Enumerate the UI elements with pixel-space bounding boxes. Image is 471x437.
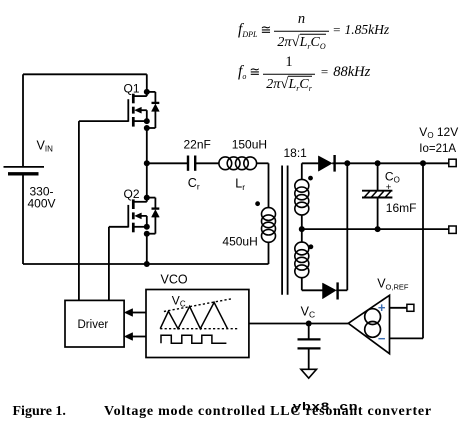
svg-text:Q2: Q2	[124, 187, 140, 201]
svg-text:+: +	[378, 300, 386, 315]
svg-text:+: +	[386, 182, 392, 193]
svg-text:−: −	[378, 331, 386, 346]
svg-text:22nF: 22nF	[184, 138, 211, 152]
svg-text:VIN: VIN	[37, 139, 54, 154]
svg-text:VO 12V: VO 12V	[419, 125, 458, 140]
svg-text:16mF: 16mF	[386, 201, 417, 215]
svg-text:Cr: Cr	[188, 176, 200, 192]
svg-text:Lr: Lr	[235, 177, 245, 193]
svg-text:150uH: 150uH	[232, 138, 267, 152]
svg-text:VC: VC	[301, 304, 315, 319]
svg-text:Q1: Q1	[124, 82, 140, 96]
svg-text:Io=21A: Io=21A	[419, 143, 456, 155]
svg-text:400V: 400V	[28, 197, 56, 211]
svg-text:450uH: 450uH	[222, 235, 257, 249]
svg-text:VCO: VCO	[161, 273, 188, 287]
svg-text:18:1: 18:1	[284, 146, 308, 160]
svg-text:VO,REF: VO,REF	[377, 277, 409, 292]
svg-text:Driver: Driver	[78, 319, 109, 331]
